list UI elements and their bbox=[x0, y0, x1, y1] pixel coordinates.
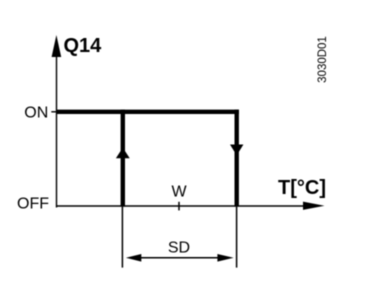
svg-text:3030D01: 3030D01 bbox=[317, 36, 329, 83]
svg-text:Q14: Q14 bbox=[64, 35, 103, 57]
x-axis T bbox=[56, 202, 325, 210]
right hysteresis line (falling, switch OFF) bbox=[234, 110, 238, 207]
svg-text:SD: SD bbox=[168, 239, 190, 256]
svg-text:W: W bbox=[171, 184, 187, 201]
left hysteresis line (rising, switch ON) bbox=[121, 110, 125, 207]
left extension line below axis bbox=[121, 207, 123, 268]
tick W on axis bbox=[178, 202, 180, 211]
y-axis Q14 bbox=[52, 35, 62, 208]
down arrow on right line bbox=[230, 145, 243, 156]
SD dimension line bbox=[130, 257, 228, 259]
svg-text:ON: ON bbox=[24, 105, 48, 122]
up arrow on left line bbox=[116, 148, 130, 159]
ON level thick line bbox=[57, 110, 239, 114]
svg-text:OFF: OFF bbox=[17, 196, 49, 213]
SD left arrowhead bbox=[126, 254, 141, 262]
tick ON level bbox=[51, 111, 56, 113]
SD right arrowhead bbox=[217, 254, 233, 262]
svg-text:T[°C]: T[°C] bbox=[278, 177, 326, 199]
right extension line below axis bbox=[236, 207, 238, 268]
